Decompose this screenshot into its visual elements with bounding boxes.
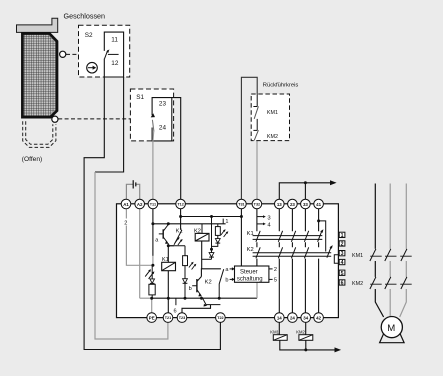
svg-text:T23: T23 — [179, 316, 186, 320]
svg-text:42: 42 — [316, 315, 321, 320]
junction dots — [150, 215, 320, 300]
svg-text:12: 12 — [111, 60, 119, 67]
output column 33-34 — [304, 204, 306, 318]
svg-text:13: 13 — [277, 202, 282, 207]
svg-text:6: 6 — [341, 281, 344, 287]
terminal 13 — [275, 199, 285, 209]
control unit Steuerschaltung — [235, 266, 269, 282]
wire K2 coil top — [201, 224, 203, 234]
svg-text:KM2: KM2 — [352, 281, 363, 287]
svg-text:KM2: KM2 — [296, 329, 305, 334]
net stub 1 — [222, 219, 224, 224]
bracket at connector — [334, 255, 338, 264]
svg-text:A2: A2 — [137, 202, 143, 207]
S1 NO contact — [152, 120, 154, 132]
svg-text:K2: K2 — [194, 228, 201, 234]
K2 contact bank bars — [253, 253, 332, 256]
wire A1 internal (gray, net 2) — [126, 204, 152, 265]
wire S2 pin11 to T21 continued (gray) — [95, 172, 168, 339]
pin a — [230, 268, 233, 270]
connector pin 2 — [339, 241, 345, 246]
wire T12 internal — [180, 204, 182, 230]
relay coil K2 — [195, 233, 209, 241]
coil return wire with arrow — [280, 340, 335, 350]
resistor R2 column — [184, 246, 186, 256]
top internal rail from T11 — [153, 223, 226, 225]
feedback contact KM1 (NC) — [256, 94, 258, 107]
svg-text:24: 24 — [159, 125, 167, 132]
svg-text:T12: T12 — [177, 203, 184, 207]
terminal 14 — [275, 313, 285, 323]
wire emitter row — [168, 245, 185, 247]
wire S2 pin12 to T22 (left outer loop) — [84, 77, 220, 350]
net stub 6 — [175, 298, 177, 305]
wire control box to rail (gray) — [256, 282, 258, 298]
battery / DC supply symbol — [132, 180, 134, 188]
wire LED column — [151, 265, 153, 284]
terminal T22 — [216, 313, 226, 323]
wire T31 to control unit — [240, 204, 242, 266]
svg-text:2: 2 — [341, 242, 344, 248]
indicator LED 1 arrows — [145, 271, 153, 279]
terminal PE — [147, 313, 157, 323]
roller bottom (S1 actuator) — [52, 116, 58, 122]
pin 2 — [269, 268, 273, 270]
guard door closed (hatched) — [22, 34, 57, 118]
connector pin 4 — [339, 259, 345, 264]
guard door open position (dashed) — [23, 121, 56, 147]
terminal 42 — [314, 313, 324, 323]
output column 13-14 — [278, 204, 280, 318]
svg-text:Steuer: Steuer — [240, 269, 258, 275]
svg-text:(Offen): (Offen) — [22, 156, 42, 163]
svg-text:K1: K1 — [162, 257, 169, 263]
svg-text:KM1: KM1 — [267, 110, 278, 116]
svg-text:b: b — [189, 286, 192, 292]
svg-text:KM1: KM1 — [270, 329, 279, 334]
svg-text:23: 23 — [290, 202, 295, 207]
svg-text:34: 34 — [303, 315, 308, 320]
wire rail to PE (gray) — [151, 298, 153, 317]
diode D2 — [184, 266, 186, 279]
resistor R1 — [149, 284, 155, 295]
svg-text:K2: K2 — [205, 279, 212, 285]
svg-text:14: 14 — [277, 315, 282, 320]
svg-text:A1: A1 — [123, 202, 129, 207]
bottom common rail — [140, 297, 152, 299]
branch diode chain to coil drive — [202, 258, 212, 260]
K2 contact blades — [256, 247, 331, 259]
wire K1 coil to rail — [167, 271, 169, 299]
vertical from T12 rail — [211, 217, 213, 253]
diode D3 — [209, 253, 214, 257]
collector node wire — [201, 269, 221, 277]
net stub 3 — [257, 216, 264, 218]
svg-text:T31: T31 — [238, 203, 245, 207]
relay coil K1 — [162, 262, 176, 270]
wire 14 to KM1 coil — [278, 318, 280, 335]
svg-text:T32: T32 — [254, 203, 261, 207]
terminal 23 — [288, 199, 298, 209]
connector pin 1 — [339, 232, 345, 237]
output column 41-42 — [318, 204, 320, 318]
transistor Q-a — [162, 229, 164, 238]
resistor R3 — [217, 224, 219, 227]
svg-text:11: 11 — [111, 36, 118, 43]
svg-text:2: 2 — [274, 267, 277, 273]
wire 34 to KM2 coil — [305, 318, 307, 335]
interpole leads KM1-KM2 — [374, 261, 376, 277]
rail T12 to T31 — [181, 216, 242, 218]
S2 NC contact — [108, 53, 119, 55]
diode D1 — [217, 235, 219, 238]
svg-text:3: 3 — [341, 251, 344, 257]
transistor Q-b — [196, 279, 198, 292]
LED diode 1 — [150, 279, 155, 283]
wire S1 pin24 to T11 (gray) — [152, 132, 155, 205]
pin b — [230, 278, 233, 280]
K1 contact bank bars — [253, 236, 323, 240]
supply leads to A1/A2 (gray) — [126, 184, 133, 204]
wire rail to T21 — [167, 298, 169, 317]
connector pin 3 — [339, 251, 345, 256]
node K1 drive — [167, 244, 169, 263]
terminal 34 — [301, 313, 311, 323]
wire S2 pin11 to T21 — [95, 77, 124, 172]
svg-text:K2: K2 — [247, 247, 254, 253]
wire T11 internal — [152, 204, 154, 256]
svg-text:PE: PE — [149, 315, 155, 320]
svg-text:T22: T22 — [217, 316, 224, 320]
forced guidance arrows on K1 contact — [175, 238, 182, 245]
feedback loop wire bottom to T32 (gray) — [256, 141, 258, 204]
svg-text:M: M — [387, 323, 395, 334]
wire T23 link — [182, 305, 211, 318]
svg-text:S1: S1 — [136, 94, 144, 101]
emitter jog to T22 — [203, 298, 221, 304]
terminal T11 — [148, 199, 158, 209]
roller top (S2 actuator) — [60, 51, 66, 57]
phase line L2 (gray) — [389, 184, 391, 249]
position switch S1 enclosure (dashed) — [130, 89, 173, 141]
contact K1 (NO, internal) — [168, 230, 182, 246]
positive opening symbol (circle with arrow) — [87, 62, 98, 73]
svg-text:23: 23 — [159, 101, 167, 108]
svg-text:Rückführkreis: Rückführkreis — [263, 83, 299, 89]
phase line L3 (gray) — [405, 184, 407, 249]
connector pin 5 — [339, 270, 345, 275]
svg-text:b: b — [225, 278, 228, 284]
guard mounting bracket — [17, 18, 58, 32]
svg-text:5: 5 — [341, 271, 344, 277]
feedback loop wire T31 up and over (dark) — [241, 77, 257, 204]
terminal T31 — [237, 199, 247, 209]
svg-text:6: 6 — [174, 308, 177, 314]
wire T32 column — [256, 204, 258, 266]
svg-text:5: 5 — [274, 278, 277, 284]
safety relay module body — [117, 204, 339, 318]
svg-text:1: 1 — [341, 233, 344, 239]
output rail with arrow (13/33) — [279, 183, 330, 204]
svg-text:T11: T11 — [150, 203, 156, 207]
svg-text:K1: K1 — [176, 229, 183, 235]
terminal T23 — [177, 313, 187, 323]
svg-text:2: 2 — [124, 221, 127, 227]
svg-text:KM2: KM2 — [267, 134, 278, 140]
motor M — [381, 317, 402, 338]
indicator LED 3 arrows — [221, 230, 227, 237]
wire K2 coil bottom to collector — [201, 241, 203, 269]
svg-text:Geschlossen: Geschlossen — [64, 12, 106, 21]
terminal A2 — [135, 199, 145, 209]
output column 23-24 — [291, 204, 293, 318]
terminal T32 — [252, 199, 262, 209]
contact K2 (internal) — [219, 269, 224, 298]
pin 5 — [269, 278, 273, 280]
svg-text:schaltung: schaltung — [237, 277, 263, 283]
mechanical link door to S2 (dashed) — [66, 53, 104, 55]
wire S1 pin23 to T12 — [172, 98, 181, 204]
motor leads — [375, 289, 383, 317]
Rueckfuehrkreis enclosure (dashed) — [251, 94, 289, 141]
net stub 4 — [257, 223, 264, 225]
indicator LED 2 arrows — [189, 263, 195, 270]
wire resistor to rail — [151, 295, 153, 298]
terminal 33 — [301, 199, 311, 209]
svg-text:KM1: KM1 — [352, 253, 363, 259]
svg-text:24: 24 — [290, 315, 295, 320]
terminal 41 — [314, 199, 324, 209]
mechanical link door to S1 (dashed) — [58, 118, 150, 120]
svg-text:33: 33 — [303, 202, 308, 207]
terminal T21 — [163, 313, 173, 323]
svg-text:S2: S2 — [85, 32, 93, 39]
svg-text:4: 4 — [341, 260, 344, 266]
S1 contact block 23-24 — [152, 98, 172, 141]
feedback contact KM2 (NC) — [256, 119, 258, 130]
svg-text:T21: T21 — [165, 316, 172, 320]
wire A2 internal (gray) — [139, 204, 141, 298]
terminal 24 — [288, 313, 298, 323]
position switch S2 enclosure (dashed) — [79, 25, 130, 77]
connector pin 6 — [339, 280, 345, 285]
svg-text:41: 41 — [316, 202, 321, 207]
svg-text:1: 1 — [225, 219, 228, 225]
svg-text:K1: K1 — [247, 231, 254, 237]
terminal A1 — [121, 199, 131, 209]
phase line L1 — [374, 184, 376, 249]
bypass wire 41 — [319, 221, 326, 252]
terminal T12 — [176, 199, 186, 209]
S2 contact block 11-12 — [104, 32, 123, 77]
K1 contact blades — [256, 231, 322, 242]
